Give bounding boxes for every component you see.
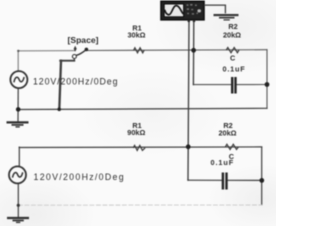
source V1 circle [10, 71, 27, 88]
node dot switch branch bottom [57, 108, 61, 112]
wire top circuit bottom rail [18, 108, 267, 109]
wire lower rail (V2 to right) [19, 146, 261, 149]
svg-text:120V/200Hz/0Deg: 120V/200Hz/0Deg [34, 172, 125, 182]
wire scope to ground [204, 5, 225, 13]
node dot top cap right [265, 82, 270, 87]
ground below V2 [7, 218, 29, 222]
scope bright dot [197, 9, 201, 12]
wire switch branch horizontal [60, 60, 74, 62]
svg-text:20kΩ: 20kΩ [218, 129, 236, 138]
wire scope channel A lead down to node and cap [192, 22, 194, 85]
node dot A (top mid) [191, 48, 196, 53]
switch pole circle [72, 55, 76, 59]
wire lower right vertical [261, 147, 263, 205]
scope screen sine trace [165, 6, 184, 15]
wire [188, 179, 222, 181]
scope control specks [187, 4, 199, 15]
wire right vertical top circuit [266, 50, 268, 109]
switch actuator diamond [74, 46, 77, 52]
node dot lower cap right [259, 178, 264, 183]
svg-text:30kΩ: 30kΩ [127, 30, 145, 39]
wire lower circuit bottom rail (faint) [18, 204, 261, 206]
scope terminal stubs [188, 20, 190, 22]
wire top rail right (switch to right corner) [88, 49, 268, 52]
svg-text:0.1uF: 0.1uF [222, 65, 245, 74]
svg-text:120V/200Hz/0Deg: 120V/200Hz/0Deg [33, 77, 118, 87]
node corner V1 top [17, 50, 19, 52]
capacitor C bottom plates [223, 173, 227, 190]
capacitor C top plates [232, 77, 235, 94]
resistor R2 top zigzag [226, 48, 239, 53]
resistor R2 bottom zigzag [225, 144, 238, 149]
svg-text:0.1uF: 0.1uF [211, 158, 235, 167]
wire scope channel B lead down to lower circuit [188, 22, 189, 180]
ground below V1 [7, 122, 29, 127]
resistor R1 bottom zigzag [133, 145, 145, 150]
oscilloscope XSC1 [161, 1, 204, 22]
switch lever [76, 50, 86, 56]
node dot B (lower mid) [186, 144, 191, 149]
wire V1 top lead [17, 51, 19, 71]
node dot V1 bottom [16, 107, 21, 112]
svg-text:90kΩ: 90kΩ [127, 128, 145, 137]
wire lower left elbow down to V2 [18, 147, 20, 166]
resistor R1 top zigzag [134, 48, 145, 53]
wire top capacitor row [193, 84, 231, 86]
wire [227, 179, 261, 181]
svg-text:20kΩ: 20kΩ [223, 31, 241, 40]
svg-text:[Space]: [Space] [67, 35, 98, 45]
wire [236, 84, 267, 86]
wire top rail left (source V1 to switch) [18, 50, 75, 52]
wire switch branch vertical thick [59, 61, 61, 110]
svg-text:C: C [230, 53, 236, 62]
source V2 circle [9, 166, 26, 183]
ground scope (top right) [214, 15, 239, 20]
switch throw dot [85, 48, 89, 52]
wire switch pole stub [73, 58, 75, 61]
node dot V2 bottom [17, 204, 20, 207]
wire V1 bottom lead to ground [17, 88, 19, 122]
wire V2 bottom lead to ground [17, 183, 19, 217]
wire lower capacitor row [187, 179, 189, 182]
switch J1 [72, 46, 88, 59]
